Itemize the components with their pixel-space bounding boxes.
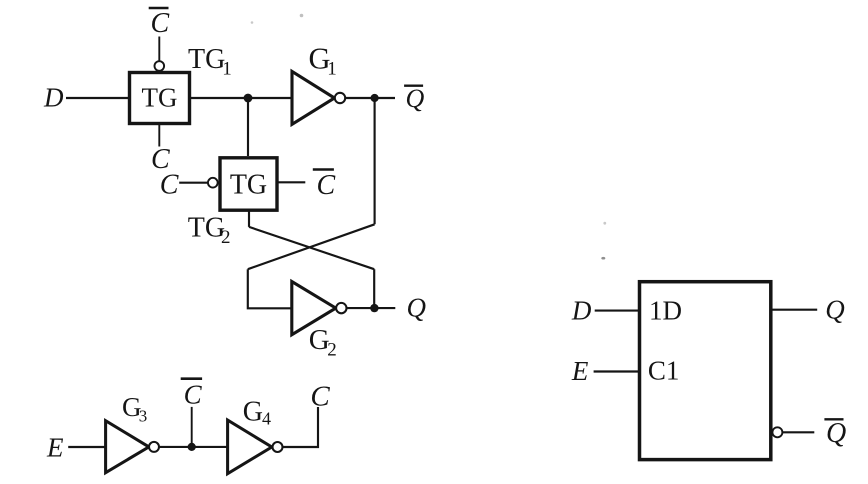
label G1 bbox=[309, 42, 337, 80]
svg-text:1: 1 bbox=[327, 59, 337, 80]
wire E input bbox=[594, 370, 640, 372]
wire G3 to G4 bbox=[159, 446, 228, 448]
wire node A to TG2 bbox=[247, 98, 249, 156]
label G4 bbox=[243, 397, 271, 429]
label C (clock out) bbox=[310, 380, 330, 412]
label G2 bbox=[309, 324, 337, 361]
inverter G2 bbox=[292, 282, 336, 335]
label TG1 bbox=[188, 44, 232, 80]
TG2 internal label TG bbox=[230, 170, 267, 201]
svg-text:TG: TG bbox=[230, 170, 267, 201]
svg-text:1D: 1D bbox=[649, 295, 682, 325]
svg-text:4: 4 bbox=[262, 409, 271, 429]
transmission gate TG1 bbox=[130, 73, 190, 124]
TG1 control bubble bbox=[155, 61, 165, 71]
TG2 control bubble bbox=[208, 178, 218, 188]
svg-text:E: E bbox=[46, 432, 64, 462]
scan speck bbox=[300, 14, 304, 18]
svg-text:Q: Q bbox=[825, 294, 845, 324]
wire G1 to Q-bar node bbox=[345, 97, 395, 99]
wire D input bbox=[595, 310, 640, 312]
scan speck bbox=[601, 257, 605, 260]
node junction A bbox=[244, 94, 253, 103]
label E bbox=[46, 432, 64, 462]
svg-text:D: D bbox=[43, 83, 64, 113]
pin label C1 bbox=[648, 355, 680, 385]
inverter G4 bbox=[228, 420, 272, 474]
wire TG2 bottom bbox=[248, 210, 250, 227]
svg-text:Q: Q bbox=[407, 293, 427, 323]
wire D to TG1 bbox=[66, 97, 129, 99]
wire left vertical to G2 input bbox=[248, 269, 292, 308]
label Q bbox=[407, 293, 427, 323]
wire E to G3 bbox=[68, 446, 105, 448]
G1 output bubble bbox=[335, 93, 345, 103]
svg-text:C1: C1 bbox=[648, 355, 680, 385]
label Q-bar (right) bbox=[826, 418, 846, 449]
scan speck bbox=[251, 21, 254, 24]
label G3 bbox=[122, 392, 147, 425]
label C-bar (top) bbox=[151, 8, 170, 39]
svg-text:C: C bbox=[160, 169, 179, 200]
TG1 internal label TG bbox=[142, 83, 178, 113]
wire TG1 to G1 bbox=[190, 97, 292, 99]
Q-bar output bubble bbox=[772, 427, 782, 437]
label E (right) bbox=[571, 356, 589, 386]
wire TG1 bottom control bbox=[158, 125, 160, 147]
label Q-bar bbox=[406, 84, 425, 113]
label D (right) bbox=[571, 295, 592, 325]
svg-text:C: C bbox=[310, 380, 330, 412]
G3 output bubble bbox=[149, 442, 159, 452]
wire C-bar node vertical bbox=[191, 407, 193, 447]
label C (TG1 control) bbox=[151, 144, 170, 175]
svg-text:TG: TG bbox=[142, 83, 178, 113]
svg-text:Q: Q bbox=[826, 418, 846, 449]
svg-text:E: E bbox=[571, 356, 589, 386]
svg-text:3: 3 bbox=[139, 406, 148, 425]
label D bbox=[43, 83, 64, 113]
wire G2 to Q node bbox=[347, 307, 396, 309]
label Q (right) bbox=[825, 294, 845, 324]
svg-text:2: 2 bbox=[327, 340, 337, 361]
svg-text:C: C bbox=[151, 8, 170, 39]
wire C-bar to TG1 bubble bbox=[158, 37, 160, 62]
label C-bar (bottom) bbox=[184, 380, 203, 410]
wire Q-bar output bbox=[783, 431, 814, 433]
svg-text:D: D bbox=[571, 295, 592, 325]
svg-text:2: 2 bbox=[221, 227, 231, 248]
wire Q output bbox=[773, 309, 818, 311]
inverter G1 bbox=[292, 71, 335, 124]
node junction C bbox=[370, 304, 378, 312]
svg-text:C: C bbox=[317, 170, 336, 201]
wire Q-bar feedback vertical bbox=[374, 98, 376, 224]
svg-text:Q: Q bbox=[406, 84, 425, 113]
wire diagonal cross (TG2 to right) bbox=[249, 227, 374, 269]
label TG2 bbox=[188, 213, 231, 249]
scan speck bbox=[603, 222, 606, 225]
latch symbol box bbox=[640, 282, 771, 460]
wire right vertical to Q node bbox=[373, 269, 375, 304]
G2 output bubble bbox=[336, 303, 346, 313]
svg-text:TG: TG bbox=[188, 213, 225, 244]
svg-text:TG: TG bbox=[188, 44, 225, 75]
transmission gate TG2 bbox=[220, 158, 277, 210]
wire diagonal cross (Q-bar to left) bbox=[248, 224, 375, 269]
svg-text:1: 1 bbox=[222, 59, 232, 80]
label C (TG2 control input) bbox=[160, 169, 179, 200]
svg-text:G: G bbox=[243, 397, 263, 428]
wire TG2 to C-bar bbox=[277, 181, 305, 183]
node junction B bbox=[371, 94, 379, 102]
node junction D bbox=[188, 443, 196, 451]
pin label 1D bbox=[649, 295, 682, 325]
inverter G3 bbox=[106, 421, 149, 473]
wire G4 to C bbox=[283, 407, 318, 447]
G4 output bubble bbox=[273, 442, 283, 452]
svg-text:C: C bbox=[184, 380, 203, 410]
wire C to TG2 bubble bbox=[179, 182, 208, 184]
label C-bar (TG2 right) bbox=[317, 170, 336, 201]
